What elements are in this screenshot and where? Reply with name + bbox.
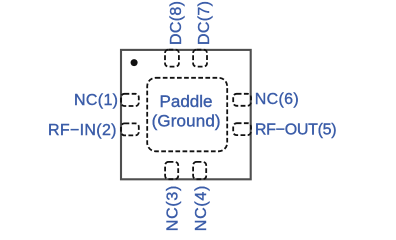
svg-text:DC(7): DC(7) [196,1,213,45]
svg-text:RF−OUT(5): RF−OUT(5) [255,121,337,138]
svg-text:NC(4): NC(4) [193,186,210,232]
svg-text:NC(6): NC(6) [255,91,299,108]
svg-text:Paddle: Paddle [160,92,213,111]
svg-text:DC(8): DC(8) [168,1,185,45]
svg-text:RF−IN(2): RF−IN(2) [48,122,117,139]
svg-text:(Ground): (Ground) [152,112,221,131]
svg-text:NC(3): NC(3) [164,186,181,232]
svg-text:NC(1): NC(1) [74,92,118,109]
